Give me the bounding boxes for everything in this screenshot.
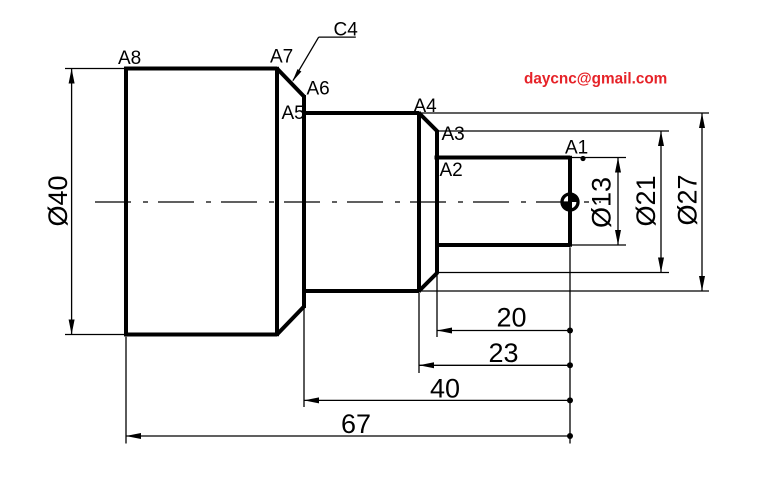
work-origin target symbol at right face on centerline: [562, 194, 578, 210]
svg-text:A7: A7: [270, 47, 293, 68]
extension vertical x=126 for dim 67: [125, 337, 127, 444]
right end face x=570: [568, 156, 572, 247]
arrow Ø40 up: [69, 69, 75, 84]
step face x=437 (A3-A2): [435, 130, 439, 274]
shoulder face x=304: [302, 95, 306, 308]
svg-text:Ø27: Ø27: [673, 174, 703, 225]
arrow Ø21 up: [658, 131, 664, 146]
dimension line 67: [126, 435, 570, 437]
part outline: Ø27 top (A5-A4): [304, 111, 419, 115]
leader C4: horizontal segment: [319, 36, 356, 38]
svg-text:Ø40: Ø40: [43, 175, 73, 226]
part outline: Ø27 bottom: [304, 289, 419, 293]
dimension line Ø40: [71, 69, 73, 335]
dot terminator 20 right: [567, 328, 573, 334]
dimension line 20: [437, 330, 570, 332]
arrow 40 left: [304, 397, 319, 403]
arrow Ø21 down: [658, 258, 664, 273]
svg-text:20: 20: [496, 303, 526, 333]
arrow 23 left: [419, 362, 434, 368]
extension vertical x=437 for dim 20: [436, 275, 438, 338]
arrow Ø27 up: [699, 113, 705, 128]
chamfer C4 top (A7-A6): [277, 69, 304, 97]
svg-text:A4: A4: [414, 96, 438, 117]
dimension line 23: [419, 364, 570, 366]
centerline: [95, 201, 601, 203]
arrow Ø13 down: [615, 230, 621, 245]
dimension line Ø13: [617, 158, 619, 246]
extension line left bottom: [65, 334, 124, 336]
extension vertical x=570 shared: [569, 247, 571, 443]
svg-text:A3: A3: [442, 124, 465, 145]
cone top (A4-A3): [419, 113, 438, 132]
svg-text:23: 23: [488, 338, 518, 368]
cone bottom: [419, 273, 438, 292]
part outline: Ø40 top: [124, 67, 277, 71]
svg-text:A6: A6: [307, 79, 330, 100]
svg-text:Ø13: Ø13: [587, 177, 617, 228]
arrow Ø40 down: [69, 320, 75, 335]
extension line Ø21 top: [439, 130, 669, 132]
edge line at cone start x=419: [417, 112, 421, 293]
extension line Ø21 bottom: [439, 272, 669, 274]
dimension line 40: [304, 399, 570, 401]
extension line Ø13 bottom: [572, 244, 626, 246]
arrow Ø13 up: [615, 158, 621, 173]
part edge line at chamfer start x=277: [275, 67, 279, 337]
part outline: Ø13 top (A2-A1): [435, 156, 571, 160]
extension line Ø27 top: [421, 112, 709, 114]
svg-text:Ø21: Ø21: [631, 175, 661, 226]
arrow 67 left: [126, 433, 141, 439]
svg-text:A1: A1: [565, 138, 588, 159]
dimension line Ø27: [701, 113, 703, 291]
extension line Ø13 top: [572, 157, 626, 159]
dot terminator 23 right: [567, 362, 573, 368]
arrow 20 left: [437, 328, 452, 334]
extension vertical x=304 for dim 40: [303, 309, 305, 408]
extension line left top: [65, 68, 124, 70]
extension line Ø27 bottom: [421, 290, 709, 292]
svg-text:daycnc@gmail.com: daycnc@gmail.com: [524, 71, 667, 88]
dimension line Ø21: [660, 131, 662, 273]
svg-text:A5: A5: [282, 103, 305, 124]
svg-text:67: 67: [341, 409, 371, 439]
chamfer C4 bottom: [277, 307, 304, 335]
part outline: Ø40 section left face: [124, 67, 128, 337]
dot terminator 67 right: [567, 433, 573, 439]
svg-text:A8: A8: [118, 48, 141, 69]
part outline: Ø13 bottom: [437, 243, 570, 247]
leader C4: diagonal segment: [293, 37, 319, 81]
arrow Ø27 down: [699, 276, 705, 291]
leader C4 arrowhead: [292, 69, 301, 82]
part outline: Ø40 bottom: [124, 333, 277, 337]
extension vertical x=419 for dim 23: [418, 293, 420, 373]
svg-text:40: 40: [430, 374, 460, 404]
svg-text:A2: A2: [440, 160, 463, 181]
svg-text:C4: C4: [334, 20, 359, 41]
dot terminator 40 right: [567, 397, 573, 403]
point marker A1: [580, 156, 585, 161]
